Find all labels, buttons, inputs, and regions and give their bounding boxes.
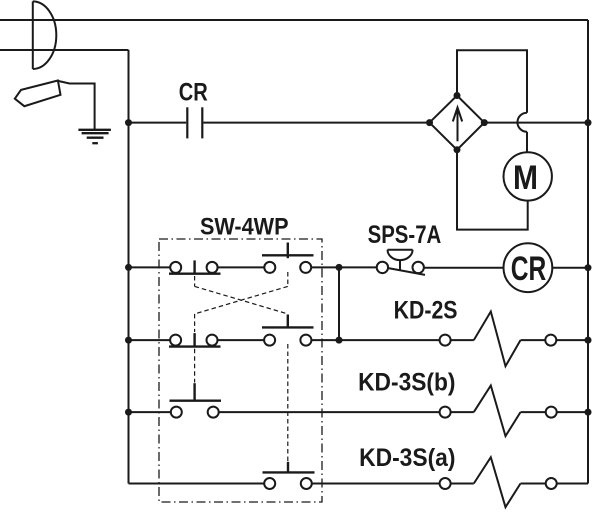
motor M [504,152,552,200]
contact SW2a actuator tick [193,333,195,347]
wire ground plug to earth [58,81,95,129]
wire hop over CR line [517,113,527,132]
node rung1 / connector [336,264,343,271]
wire rung1 segment d [424,267,504,269]
contact SW1a bridge bar (closed) [169,273,221,275]
pushbutton SPS-7A plunger cup [388,250,413,271]
break symbol KD-3S(b) [474,386,521,437]
contact SW1a terminals [170,262,181,273]
arrow inside rectifier [453,108,462,142]
node left rail / rung2 [125,337,132,344]
contact SW2b bridge bar (open) [262,326,314,328]
break symbol KD-2S [474,312,521,367]
node rectifier left [426,119,433,126]
wire rung4 segment b [312,483,440,485]
node rectifier bottom [454,146,461,153]
wire rung4 segment c [451,483,474,485]
svg-text:M: M [513,159,538,197]
enclosure SW-4WP dash-dot box [159,239,322,502]
terminal KD-3S(a) left [440,478,451,489]
pushbutton SPS-7A blade [388,268,425,275]
svg-text:CR: CR [179,78,208,106]
node rung2 / connector [336,337,343,344]
wire rung2 segment a [129,339,171,341]
svg-text:KD-3S(b): KD-3S(b) [358,369,455,397]
node CR line / right rail [585,119,592,126]
wire rung2 segment e [521,339,546,341]
wire rung2 segment f [556,339,588,341]
contact SW1b actuator stem [287,243,289,259]
contact SW2b actuator stem [287,315,289,328]
contact SW1b terminals [264,262,275,273]
wire rung1 segment c [311,266,377,268]
contact SW2a bridge bar (closed) [169,345,221,347]
wire rung3 segment a [129,411,171,413]
wire right rail [587,20,589,484]
wire rung3 segment d [521,411,546,413]
svg-text:KD-2S: KD-2S [394,296,458,324]
contact SW2b terminals [264,335,275,346]
svg-text:SPS-7A: SPS-7A [368,221,442,249]
contact SW1a actuator tick [193,260,195,273]
break symbol KD-3S(a) [474,457,521,507]
bridge rectifier D1 [430,96,485,150]
node rectifier top [454,92,461,99]
node rectifier right [481,119,488,126]
wire top rail [0,19,588,21]
wire rung4 segment e [557,483,588,485]
svg-text:KD-3S(a): KD-3S(a) [359,444,455,472]
node rung1 / right rail [585,264,592,271]
wire rung3 segment c [451,411,474,413]
contact SW4 bridge bar (open) [263,471,315,473]
wire rectifier top bracket [457,50,527,112]
wire rung1 segment a [129,266,171,268]
wire left rail [128,50,130,484]
contact SW2a terminals [170,335,181,346]
node left rail / rung1 [125,264,132,271]
wire rung2 segment b [218,339,265,341]
relay coil CR [504,243,553,292]
contact SW3 actuator stem [193,383,195,401]
contact SW3 bridge bar (open) [170,400,222,402]
wire rung4 segment d [521,483,546,485]
terminal KD-3S(b) left [440,407,451,418]
contact SW4 actuator stem [287,462,289,473]
AC plug P1 (receptacle half-circle) [33,1,56,69]
wire second prong to left rail [0,49,129,51]
mechanical linkage dashed [195,272,288,461]
wire rung1 segment e [552,267,588,269]
wire rung2 segment d [451,339,474,341]
node rung2 / right rail [585,337,592,344]
pushbutton SPS-7A terminals [377,262,388,273]
terminal KD-2S right [545,335,556,346]
terminal KD-3S(b) right [546,407,557,418]
wire CR line middle segment [203,122,426,124]
capacitor CR [187,107,202,138]
svg-text:CR: CR [511,250,547,288]
wire rung1 segment b [218,266,265,268]
terminal KD-3S(a) right [546,478,557,489]
wire rung3 segment b [219,411,440,413]
wire rung3 segment e [557,411,588,413]
ground plug body [15,81,61,107]
node left rail / rung3 [125,409,132,416]
wire rung2 segment c [311,339,439,341]
contact SW1b bridge bar (open) [262,254,314,256]
wire CR line right segment [484,122,588,124]
terminal KD-2S left [440,335,451,346]
node junction left rail / CR line [125,119,132,126]
wire hop to motor [526,132,528,153]
svg-text:SW-4WP: SW-4WP [200,214,289,241]
node rung3 / right rail [585,409,592,416]
wire motor bottom loop to rectifier bottom [457,150,528,230]
contact SW3 terminals [171,407,182,418]
wire vertical connector rung1-rung2 [338,267,340,340]
wire rung4 segment a [129,483,265,485]
wire CR line left segment [129,122,187,124]
contact SW4 terminals [264,478,275,489]
ground [78,130,111,143]
